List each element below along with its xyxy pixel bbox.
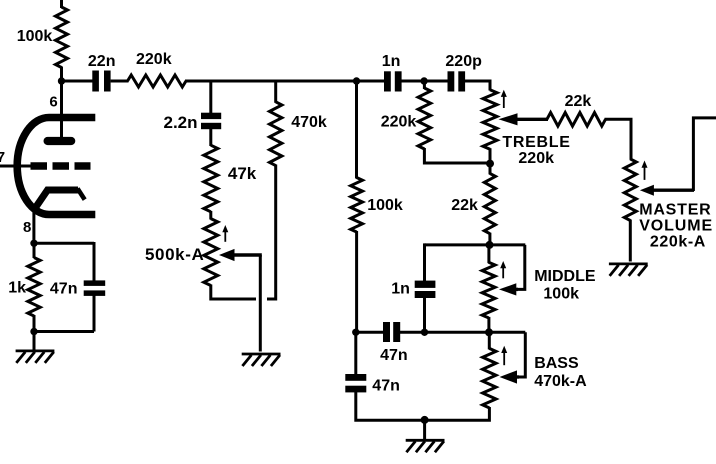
- svg-text:500k-A: 500k-A: [145, 245, 204, 264]
- node cathode top: [30, 240, 37, 247]
- resistor R 220k coupling: [128, 75, 187, 87]
- svg-text:220k: 220k: [381, 113, 417, 130]
- svg-text:VOLUME: VOLUME: [639, 218, 713, 235]
- wire C22n to R220k: [111, 80, 129, 83]
- svg-text:220k: 220k: [518, 150, 554, 167]
- wire C2.2n to R47k: [209, 129, 212, 147]
- wire bass row: [425, 331, 526, 334]
- capacitor C 22n: [92, 71, 99, 92]
- wire C47n mid right: [400, 331, 426, 334]
- resistor R 22k series: [547, 113, 606, 127]
- wire drop to C2.2n: [209, 80, 212, 114]
- svg-text:220k: 220k: [136, 51, 172, 68]
- wire drop to R470k: [274, 80, 277, 103]
- svg-text:MASTER: MASTER: [639, 202, 711, 219]
- middle wiper: [499, 283, 516, 295]
- wire top entry: [60, 0, 63, 8]
- svg-text:22k: 22k: [565, 93, 592, 110]
- node slope junction: [353, 77, 360, 84]
- potentiometer 500k-A element: [204, 219, 218, 286]
- wire cathode top: [34, 242, 94, 245]
- treble wiper: [499, 113, 518, 125]
- svg-text:100k: 100k: [17, 28, 53, 45]
- wire to C47n left: [93, 242, 96, 281]
- triode envelope: [17, 118, 95, 215]
- MV up arrow: [644, 166, 646, 180]
- wire mid row: [425, 243, 526, 246]
- capacitor C 2.2n: [201, 113, 221, 119]
- svg-text:2.2n: 2.2n: [164, 113, 198, 132]
- svg-text:MIDDLE: MIDDLE: [534, 268, 596, 285]
- ground master volume: [609, 262, 648, 265]
- bass wiper: [500, 370, 518, 383]
- svg-text:220p: 220p: [445, 53, 482, 70]
- svg-text:220k-A: 220k-A: [650, 234, 706, 251]
- svg-text:1n: 1n: [382, 53, 401, 70]
- treble up arrow: [503, 95, 505, 108]
- svg-text:TREBLE: TREBLE: [502, 134, 570, 151]
- node cathode bottom: [30, 328, 37, 335]
- wire treble bottom: [489, 148, 492, 164]
- wire R470k bottom elbow: [267, 165, 276, 300]
- node bottom ground: [421, 416, 429, 424]
- potentiometer MASTER element: [624, 159, 636, 221]
- wire pot bottom elbow: [211, 285, 256, 300]
- potentiometer TREBLE element: [483, 90, 497, 150]
- node C1n-C220p junction: [420, 77, 427, 84]
- wire to C47n mid: [356, 331, 383, 334]
- wire MV to ground: [629, 220, 632, 262]
- resistor R 22k stack: [489, 164, 492, 175]
- wire main bus: [185, 80, 385, 83]
- middle wiper elbow: [514, 245, 525, 290]
- wire R47k to pot: [209, 211, 212, 220]
- resistor R 470k: [270, 102, 282, 166]
- pot 500k up arrow: [224, 231, 226, 242]
- triode plate: [48, 137, 72, 145]
- pot 500k wiper: [219, 249, 235, 261]
- capacitor C 1n mid: [415, 281, 436, 288]
- wire 220p to treble corner: [465, 81, 490, 91]
- resistor R 47k: [204, 145, 218, 212]
- svg-text:47k: 47k: [228, 164, 257, 183]
- wire pin6 lead: [60, 81, 63, 138]
- capacitor C 47n low: [345, 374, 366, 381]
- svg-text:47n: 47n: [372, 377, 400, 394]
- resistor R 220k slope: [423, 80, 426, 89]
- svg-text:47n: 47n: [50, 280, 78, 297]
- capacitor C 47n cathode: [84, 280, 106, 286]
- wire node to C22n: [60, 80, 93, 83]
- wire 22k to MV corner: [605, 119, 632, 160]
- middle up arrow: [502, 267, 504, 279]
- wire wiper to ground mid: [259, 255, 262, 352]
- wire 1n to 220p: [402, 80, 448, 83]
- capacitor C 47n mid: [383, 322, 390, 342]
- bass up arrow: [503, 351, 505, 365]
- svg-text:22n: 22n: [88, 53, 116, 70]
- node mid row: [486, 241, 494, 249]
- svg-text:7: 7: [0, 149, 5, 166]
- bass wiper elbow: [514, 332, 525, 377]
- svg-text:470k: 470k: [291, 114, 327, 131]
- ground tone stack: [406, 439, 445, 442]
- potentiometer MIDDLE element: [487, 245, 490, 263]
- capacitor C 1n treble: [384, 71, 391, 91]
- triode grid: [31, 162, 91, 169]
- wire bottom rail: [356, 392, 490, 421]
- node 1n bottom: [421, 329, 428, 336]
- potentiometer BASS element: [488, 332, 491, 349]
- wire R220k to treble bottom: [424, 148, 490, 163]
- wire ground stub left: [33, 332, 36, 351]
- wire 1n to mid row: [423, 243, 426, 281]
- svg-text:6: 6: [49, 94, 57, 111]
- svg-text:100k: 100k: [367, 197, 403, 214]
- resistor R 1k cathode: [33, 243, 36, 258]
- wire pin7 lead: [0, 165, 32, 168]
- resistor R 100k (plate load): [56, 7, 68, 68]
- ground left: [16, 349, 55, 352]
- wire pin8 lead: [32, 209, 35, 244]
- svg-text:47n: 47n: [380, 347, 408, 364]
- capacitor C 220p: [448, 71, 455, 91]
- svg-text:1k: 1k: [8, 280, 26, 297]
- wire ground stub bottom: [423, 420, 426, 440]
- wire C47n bottom: [93, 296, 96, 332]
- wire MV wiper elbow: [693, 118, 716, 191]
- triode cathode: [34, 190, 79, 211]
- wire 100k to node: [60, 67, 63, 83]
- node plate junction: [58, 77, 65, 84]
- resistor R 100k slope: [355, 80, 358, 179]
- node 100k bottom: [352, 329, 359, 336]
- svg-text:100k: 100k: [543, 285, 579, 302]
- node treble bottom: [486, 160, 494, 168]
- wire 100k to C47n low: [354, 331, 357, 375]
- svg-text:BASS: BASS: [534, 355, 579, 372]
- node bass top: [485, 328, 493, 336]
- svg-text:470k-A: 470k-A: [534, 373, 587, 390]
- MV wiper: [640, 185, 654, 196]
- svg-text:22k: 22k: [451, 197, 478, 214]
- svg-text:1n: 1n: [391, 280, 410, 297]
- svg-text:8: 8: [23, 219, 31, 236]
- ground mid: [242, 353, 281, 356]
- wire 1n riser: [423, 298, 426, 333]
